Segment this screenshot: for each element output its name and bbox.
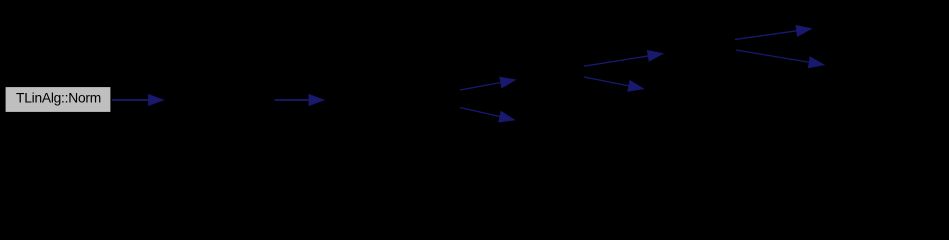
svg-text:TLinAlg::Norm: TLinAlg::Norm [16,91,101,106]
